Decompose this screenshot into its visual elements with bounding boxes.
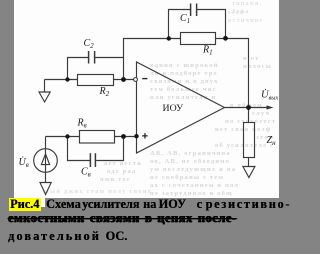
capacitor C2 top wire left (68, 58, 89, 80)
wire minus line mid (114, 79, 134, 81)
current source inner line (45, 149, 47, 172)
capacitor C3 plates (90, 153, 95, 167)
op-amp U1 triangle (137, 62, 225, 153)
node: plus input at op-amp edge (134, 134, 138, 138)
load Zn box (244, 123, 255, 158)
wire R1 line right / feedback drop (216, 39, 249, 123)
wire plus line to op-amp (115, 136, 137, 138)
current source arrowhead (41, 154, 49, 165)
op-amp inverting input bubble (134, 78, 138, 82)
svg-text:R1: R1 (202, 44, 213, 56)
svg-text:U̇вых: U̇вых (261, 89, 278, 101)
node: minus line right junction (121, 77, 126, 82)
label plus input (142, 135, 147, 136)
caption highlight yellow (9, 198, 41, 211)
svg-text:C2: C2 (84, 38, 95, 50)
wire source stem top (45, 137, 47, 150)
svg-text:Rв: Rв (77, 118, 87, 130)
ground source triangle (40, 183, 51, 195)
bleed-through ghost text (decorative texture) (14, 0, 279, 197)
wire load stem (248, 158, 250, 167)
svg-text:Zн: Zн (267, 135, 277, 147)
node: output junction (246, 105, 251, 110)
caption line 1 words (46, 197, 81, 212)
svg-text:U̇в: U̇в (19, 156, 29, 169)
wire source stem bottom (45, 172, 47, 183)
node: C1 left junction (167, 36, 171, 40)
ground load triangle (243, 167, 255, 178)
wire R1 line left (124, 39, 181, 80)
resistor R1 (181, 33, 216, 45)
ground stub left (44, 80, 46, 93)
wire minus input line left (45, 79, 78, 81)
svg-text:C1: C1 (180, 13, 190, 25)
ground left triangle (39, 92, 50, 102)
node: plus line left junction (65, 134, 69, 138)
svg-text:R2: R2 (99, 86, 110, 98)
svg-text:ИОУ: ИОУ (163, 103, 184, 114)
capacitor C1 top wire right segment (197, 10, 226, 39)
white notch after caption highlight (40, 197, 45, 207)
wire plus input line left (46, 136, 80, 138)
caption line 3 (8, 229, 101, 244)
svg-text:Cв: Cв (81, 167, 91, 179)
caption line 2 (8, 211, 237, 226)
label minus input (142, 78, 147, 79)
resistor R2 (78, 75, 114, 86)
capacitor C3 right branch (96, 137, 123, 161)
resistor R3 (80, 131, 115, 144)
current source circle (34, 149, 58, 173)
node: minus line left junction (65, 77, 69, 81)
node: plus line right junction (121, 134, 126, 139)
node: C1 right junction (223, 36, 228, 41)
caption line 1 Рис.4 (10, 197, 39, 212)
capacitor C3 left branch (68, 137, 90, 161)
capacitor C2 plates (89, 51, 95, 64)
capacitor C1 plates (191, 4, 197, 17)
capacitor C1 top wire left segment (169, 10, 191, 39)
white scanned figure area (14, 0, 279, 198)
output arrowhead (267, 105, 274, 109)
capacitor C2 top wire right (95, 57, 124, 59)
wire output line (225, 107, 269, 109)
